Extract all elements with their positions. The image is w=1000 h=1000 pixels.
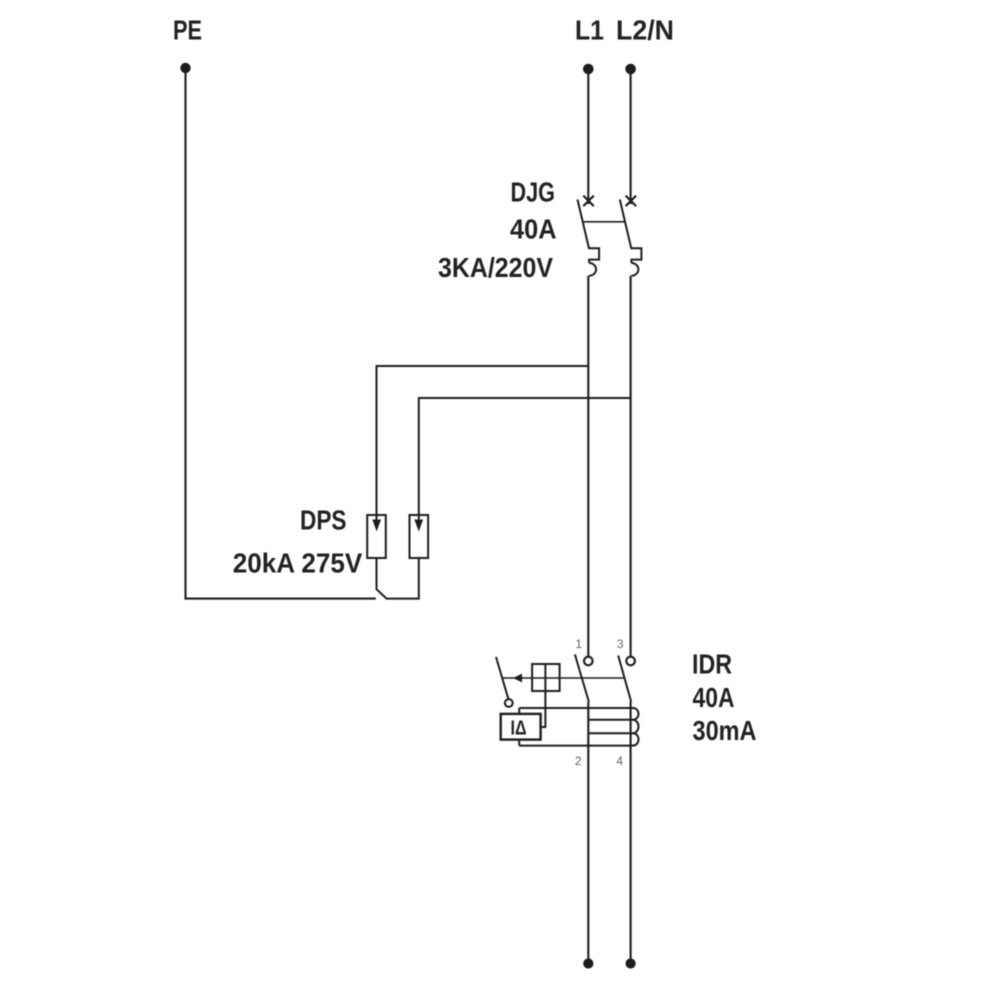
svg-text:40A: 40A <box>693 682 735 713</box>
svg-text:DPS: DPS <box>300 505 347 536</box>
svg-text:1: 1 <box>575 637 582 651</box>
svg-text:IΔ: IΔ <box>511 718 527 740</box>
svg-text:30mA: 30mA <box>693 715 757 746</box>
svg-text:40A: 40A <box>510 214 557 245</box>
svg-text:IDR: IDR <box>692 649 732 680</box>
svg-text:DJG: DJG <box>511 177 556 208</box>
svg-text:L1: L1 <box>575 15 604 46</box>
svg-text:L2/N: L2/N <box>616 15 674 46</box>
svg-text:3: 3 <box>617 637 624 651</box>
svg-text:PE: PE <box>173 15 202 46</box>
svg-text:3KA/220V: 3KA/220V <box>438 252 553 283</box>
svg-text:20kA 275V: 20kA 275V <box>233 548 363 579</box>
svg-text:4: 4 <box>616 754 623 768</box>
svg-text:2: 2 <box>575 754 582 768</box>
